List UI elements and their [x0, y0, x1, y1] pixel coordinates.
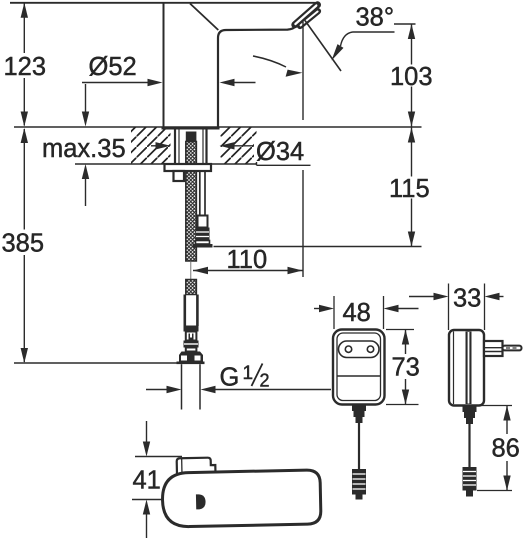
svg-text:103: 103: [390, 63, 433, 91]
svg-text:86: 86: [492, 435, 520, 463]
svg-text:Ø34: Ø34: [256, 138, 304, 166]
svg-text:73: 73: [392, 354, 420, 382]
svg-text:33: 33: [453, 285, 481, 313]
svg-text:110: 110: [227, 246, 268, 274]
svg-text:38°: 38°: [356, 4, 395, 32]
svg-text:385: 385: [2, 230, 45, 258]
svg-text:123: 123: [4, 53, 47, 81]
svg-text:max.35: max.35: [42, 135, 126, 163]
svg-text:48: 48: [343, 299, 371, 327]
svg-text:2: 2: [260, 371, 270, 391]
svg-text:115: 115: [389, 175, 430, 203]
svg-text:G: G: [220, 364, 240, 392]
svg-text:Ø52: Ø52: [89, 53, 137, 81]
svg-text:1: 1: [243, 363, 254, 384]
svg-text:41: 41: [133, 467, 161, 495]
